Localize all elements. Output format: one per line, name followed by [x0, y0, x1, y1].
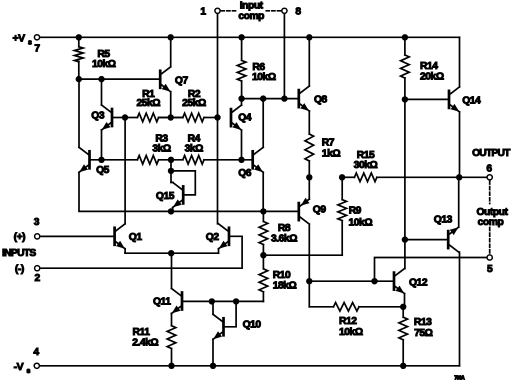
- wire Q15 collector stub: [171, 160, 173, 183]
- terminal pin 1 (input comp): [215, 8, 220, 13]
- terminal pin 8 (input comp): [282, 8, 287, 13]
- junction R1 left/Q3 base/Q1 collector: [122, 114, 128, 120]
- resistor R5: [75, 37, 84, 79]
- label R7 value: [322, 137, 341, 159]
- svg-text:(+): (+): [14, 232, 26, 243]
- wire R3 row left (Q5 base): [91, 159, 138, 161]
- label Output comp: [476, 207, 508, 228]
- wire Q15 base loop: [171, 171, 195, 195]
- svg-text:Q6: Q6: [238, 168, 252, 179]
- label pin 3: [34, 217, 40, 228]
- label R2 value: [182, 89, 206, 109]
- label R12 value: [339, 316, 363, 338]
- resistor R12: [309, 303, 403, 312]
- label Input comp: [238, 1, 264, 23]
- label Q7: [175, 75, 189, 86]
- wire R14 junction vertical (to Q12 collector): [404, 99, 406, 268]
- svg-text:3kΩ: 3kΩ: [152, 144, 171, 155]
- terminal pin 4 (-Vs): [34, 363, 39, 368]
- svg-text:Q15: Q15: [156, 191, 175, 202]
- resistor R13: [399, 307, 408, 366]
- wire +Vs rail: [41, 36, 460, 38]
- label 709A: [454, 376, 465, 382]
- resistor R1: [137, 113, 170, 122]
- wire R3-R4 mid: [159, 159, 183, 161]
- svg-text:R11: R11: [133, 327, 151, 338]
- resistor R7: [305, 111, 314, 177]
- junction Q6 emitter/R8 top: [260, 208, 266, 214]
- label R13 value: [414, 317, 433, 339]
- svg-text:10kΩ: 10kΩ: [339, 327, 363, 338]
- label Q9: [313, 205, 327, 216]
- svg-text:Q8: Q8: [314, 95, 328, 106]
- label +Vs: [13, 32, 33, 46]
- wire right edge vertical (Q13 collector to -Vs rail): [459, 252, 461, 366]
- junction R2 right/pin1/Q4 base: [214, 114, 220, 120]
- label Q3: [91, 111, 105, 122]
- label Q12: [409, 278, 428, 289]
- junction Q3 collector: [98, 76, 104, 82]
- transistor Q7: [160, 37, 171, 117]
- junction Q15 emitter: [168, 208, 174, 214]
- svg-text:5: 5: [487, 264, 493, 275]
- wire Q13 base line: [405, 239, 447, 241]
- wire pin8 vertical: [283, 14, 285, 99]
- resistor R10: [259, 255, 268, 301]
- transistor Q13: [448, 177, 459, 252]
- junction Q3 emitter/Q5 base: [98, 157, 104, 163]
- wire Q9 collector to Q12 base line: [309, 280, 392, 282]
- wire Q7 base line: [79, 78, 159, 80]
- label -Vs: [14, 361, 31, 375]
- label Q2: [206, 232, 220, 243]
- resistor R2: [171, 113, 204, 122]
- wire Q11 base / R10 bottom line: [183, 300, 263, 302]
- wire -Vs rail: [40, 365, 459, 367]
- transistor Q9: [299, 177, 310, 306]
- resistor R3: [137, 156, 158, 165]
- svg-text:7: 7: [34, 44, 40, 55]
- label pin 6: [486, 163, 492, 174]
- svg-text:18kΩ: 18kΩ: [273, 281, 297, 292]
- svg-text:R10: R10: [273, 270, 291, 281]
- transistor Q4: [231, 99, 242, 160]
- svg-text:3: 3: [34, 217, 40, 228]
- wire R1 left lead: [125, 117, 137, 119]
- svg-text:6: 6: [486, 163, 492, 174]
- svg-text:Q11: Q11: [153, 297, 171, 308]
- label Q10: [243, 320, 262, 331]
- svg-text:1: 1: [200, 7, 206, 18]
- label R15 value: [354, 150, 378, 171]
- junction Q10 collector: [209, 298, 215, 304]
- svg-text:s: s: [27, 368, 31, 375]
- junction +Vs/R6: [238, 34, 244, 40]
- junction R5 bottom: [76, 76, 82, 82]
- junction R6 bottom/Q4 collector: [238, 95, 244, 101]
- svg-text:-V: -V: [14, 361, 24, 373]
- junction -Vs/R13: [400, 363, 406, 369]
- junction +Vs/Q7 collector: [168, 34, 174, 40]
- label pin 7: [34, 44, 40, 55]
- junction Q11 collector/emitter line: [168, 250, 174, 256]
- label pin 5: [487, 264, 493, 275]
- svg-text:Input: Input: [240, 1, 264, 12]
- transistor Q1: [115, 118, 126, 254]
- label pin 4: [33, 347, 39, 358]
- transistor Q8: [299, 37, 310, 111]
- label pin 8: [295, 7, 301, 18]
- junction R8/R10: [260, 252, 266, 258]
- junction Q4 emitter/Q6 base: [238, 157, 244, 163]
- svg-text:4: 4: [33, 347, 39, 358]
- label Q1: [129, 232, 143, 243]
- label R11 value: [132, 327, 158, 349]
- wire Q3 base: [113, 117, 125, 119]
- label Q8: [314, 95, 328, 106]
- junction Q13 base/Q12 collector: [402, 236, 408, 242]
- wire Q14 base line: [405, 98, 448, 100]
- wire pin3 to Q1 base: [40, 235, 113, 237]
- junction R14 bottom/Q14 base: [402, 96, 408, 102]
- svg-text:10kΩ: 10kΩ: [252, 72, 276, 83]
- wire output node to pin6: [459, 176, 486, 178]
- wire pin5 output comp line: [375, 258, 487, 282]
- label pin 1: [200, 7, 206, 18]
- junction +Vs/Q8 collector: [306, 34, 312, 40]
- label R8 value: [271, 223, 297, 244]
- svg-text:2.4kΩ: 2.4kΩ: [132, 338, 158, 349]
- resistor R14: [401, 37, 410, 99]
- svg-text:Q9: Q9: [313, 205, 327, 216]
- transistor Q5: [79, 79, 90, 172]
- svg-text:10kΩ: 10kΩ: [92, 59, 116, 70]
- junction pin5 line/Q12 base: [371, 278, 377, 284]
- transistor Q6: [253, 99, 264, 212]
- resistor R9: [338, 177, 347, 255]
- svg-text:Q1: Q1: [129, 232, 143, 243]
- terminal pin 5 (output comp): [487, 255, 492, 260]
- label R6 value: [252, 62, 276, 83]
- label Q14: [462, 95, 481, 106]
- svg-text:R7: R7: [322, 137, 335, 148]
- svg-text:comp: comp: [238, 11, 264, 22]
- label R1 value: [136, 89, 160, 109]
- junction -Vs/Q10 emitter: [210, 363, 216, 369]
- svg-text:2: 2: [35, 273, 41, 284]
- transistor Q15: [173, 182, 184, 211]
- node OUTPUT: [456, 174, 462, 180]
- transistor Q11: [172, 253, 183, 313]
- junction R7 bottom/Q9 emitter: [306, 174, 312, 180]
- dashed line pin6 to pin5: [489, 181, 491, 254]
- svg-text:709A: 709A: [454, 376, 465, 382]
- svg-text:Q3: Q3: [91, 111, 105, 122]
- label Q6: [238, 168, 252, 179]
- wire pin2 to Q2 base: [40, 236, 242, 268]
- wire R8 bottom to R9 bottom: [263, 254, 342, 256]
- wire pin1 / Q2 collector vertical: [217, 14, 219, 224]
- transistor Q2: [219, 224, 230, 253]
- svg-text:8: 8: [295, 7, 301, 18]
- label INPUTS: [2, 248, 36, 259]
- label R10 value: [273, 270, 297, 292]
- wire R1-R2 mid: [159, 117, 183, 119]
- svg-text:1kΩ: 1kΩ: [322, 149, 341, 160]
- label Q13: [434, 215, 453, 226]
- resistor R15: [342, 173, 459, 182]
- transistor Q3: [102, 79, 113, 160]
- junction +Vs/R14: [402, 34, 408, 40]
- svg-text:3kΩ: 3kΩ: [185, 144, 204, 155]
- junction +Vs/R5: [76, 34, 82, 40]
- label Q15: [156, 191, 175, 202]
- label R14 value: [420, 61, 444, 82]
- wire Q8 base line: [242, 98, 297, 100]
- label Q4: [238, 113, 252, 124]
- transistor Q14: [449, 37, 460, 177]
- dashed lead pin1 to Input comp label: [221, 10, 236, 12]
- svg-text:75Ω: 75Ω: [414, 328, 433, 339]
- junction R12/R13/Q12 emitter: [400, 304, 406, 310]
- svg-text:OUTPUT: OUTPUT: [472, 148, 511, 159]
- svg-text:R12: R12: [339, 316, 357, 327]
- junction Q6 collector: [260, 95, 266, 101]
- svg-text:INPUTS: INPUTS: [2, 248, 36, 259]
- label R4 value: [185, 134, 204, 155]
- svg-text:Q12: Q12: [409, 278, 428, 289]
- transistor Q10: [213, 301, 224, 365]
- label OUTPUT: [472, 148, 511, 159]
- label Q11: [153, 297, 171, 308]
- svg-text:25kΩ: 25kΩ: [182, 98, 206, 109]
- junction pin8/Q8 base: [281, 95, 287, 101]
- svg-text:30kΩ: 30kΩ: [354, 160, 378, 171]
- svg-text:3.6kΩ: 3.6kΩ: [271, 233, 297, 244]
- label R5 value: [92, 49, 116, 70]
- label (+): [14, 232, 26, 243]
- svg-text:10kΩ: 10kΩ: [349, 218, 373, 229]
- svg-text:Q2: Q2: [206, 232, 220, 243]
- terminal pin 7 (+Vs): [34, 35, 39, 40]
- resistor R4: [183, 156, 204, 165]
- wire R2 right lead: [204, 117, 218, 119]
- label R9 value: [349, 206, 373, 229]
- wire Q10 base jog: [225, 301, 236, 326]
- terminal pin 2 (- input): [35, 266, 40, 271]
- label (-): [15, 264, 24, 275]
- svg-text:s: s: [28, 39, 32, 46]
- dashed lead Input comp label to pin8: [266, 10, 280, 12]
- svg-text:Q4: Q4: [238, 113, 252, 124]
- resistor R11: [167, 314, 176, 366]
- svg-text:comp: comp: [478, 217, 504, 228]
- svg-text:Q13: Q13: [434, 215, 453, 226]
- transistor Q12: [394, 269, 405, 307]
- label pin 2: [35, 273, 41, 284]
- junction R3-R4/Q15 collector: [168, 157, 174, 163]
- resistor R8: [259, 211, 268, 255]
- wire R4 row right to Q6 base: [204, 159, 251, 161]
- resistor R6: [237, 37, 246, 98]
- svg-text:25kΩ: 25kΩ: [136, 98, 160, 109]
- svg-text:R9: R9: [349, 206, 362, 217]
- junction Q15 base loop: [168, 168, 174, 174]
- svg-text:+V: +V: [13, 32, 26, 44]
- junction R1-R2/Q7 emitter: [168, 114, 174, 120]
- label R3 value: [152, 134, 171, 155]
- junction Q10 base: [233, 298, 239, 304]
- wire Q5 emitter bias line: [79, 172, 297, 211]
- junction Q9 collector branch: [306, 278, 312, 284]
- label Q5: [96, 165, 110, 176]
- svg-text:R13: R13: [414, 317, 432, 328]
- wire Q1-Q2 emitter line: [125, 252, 218, 254]
- svg-text:(-): (-): [15, 264, 24, 275]
- junction -Vs/R11: [168, 363, 174, 369]
- svg-text:20kΩ: 20kΩ: [420, 71, 444, 82]
- terminal pin 3 (+ input): [35, 234, 40, 239]
- svg-text:Q10: Q10: [243, 320, 262, 331]
- junction R15 left/R9 top: [339, 174, 345, 180]
- terminal pin 6 (OUTPUT): [487, 175, 492, 180]
- svg-text:Q7: Q7: [175, 75, 189, 86]
- svg-text:Q14: Q14: [462, 95, 481, 106]
- svg-text:Q5: Q5: [96, 165, 110, 176]
